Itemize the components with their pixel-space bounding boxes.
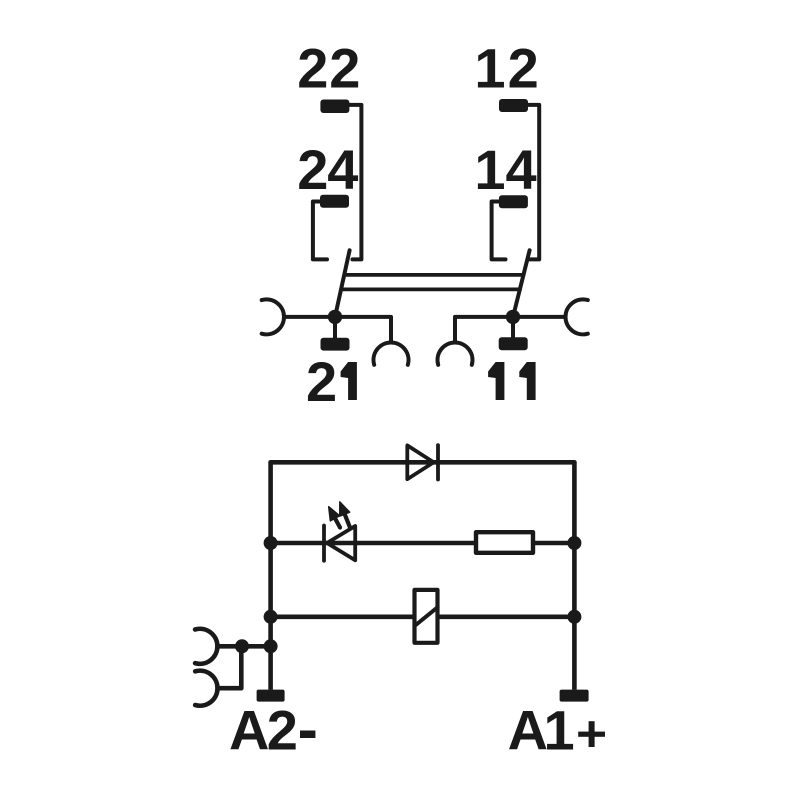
node dot coil row right <box>567 610 581 624</box>
wire lower socket elbow <box>218 646 242 688</box>
svg-text:22: 22 <box>297 36 360 99</box>
terminal label 11 <box>488 362 535 400</box>
LED triangle <box>327 526 355 560</box>
terminal pad A2 <box>257 690 285 702</box>
wire node 11 to right socket <box>513 315 566 319</box>
wire from 22 pad to NC contact <box>349 105 361 260</box>
LED arrow 1 <box>329 507 340 528</box>
terminal pad 12 <box>499 99 528 112</box>
stub to 21 pad <box>333 317 337 338</box>
switch arm pole 2 <box>335 250 350 317</box>
LED arrow 2 <box>340 502 350 528</box>
svg-text:A2: A2 <box>229 698 298 761</box>
stub to 11 pad <box>511 317 515 337</box>
diode V1 triangle <box>407 445 433 479</box>
wire node 11 to NO socket <box>455 317 513 343</box>
connector socket arc lower <box>195 671 217 706</box>
coil circuit frame right vertical <box>572 462 577 690</box>
svg-text:14: 14 <box>474 138 536 201</box>
actuator linkage upper bar <box>344 273 523 277</box>
connector row wire <box>217 644 270 649</box>
node dot middle row left <box>264 536 278 550</box>
switch arm pole 1 <box>513 250 530 317</box>
resistor R1 <box>476 532 533 553</box>
actuator linkage lower bar <box>341 287 520 291</box>
wire hook from 24 pad to NO contact <box>313 202 327 260</box>
terminal pad 21 <box>321 338 350 351</box>
NO socket arc under 24 <box>373 342 408 364</box>
node dot connector main <box>264 639 278 653</box>
node dot coil row left <box>264 610 278 624</box>
wire from 12 pad to NC contact <box>528 105 540 260</box>
node dot 11 <box>506 310 520 324</box>
LED cathode bar <box>322 526 326 561</box>
NO socket arc under 14 <box>437 342 472 364</box>
svg-text:24: 24 <box>297 138 358 201</box>
terminal pad A1 <box>560 690 589 702</box>
svg-text:A1: A1 <box>508 698 575 761</box>
relay coil K1 diagonal <box>415 607 438 626</box>
connector socket arc upper <box>195 629 217 664</box>
middle row wire left <box>271 541 476 546</box>
node dot connector junction <box>235 639 249 653</box>
svg-text:2: 2 <box>306 350 337 413</box>
terminal pad 11 <box>499 337 528 350</box>
socket arc left of 21 <box>262 299 284 334</box>
coil row wire left <box>271 614 415 619</box>
coil circuit frame left vertical <box>268 462 273 690</box>
relay coil K1 box <box>415 590 438 643</box>
terminal pad 14 <box>499 195 528 208</box>
wire hook from 14 pad to NO contact <box>492 202 506 260</box>
terminal pad 24 <box>320 195 349 208</box>
socket arc right of 11 <box>565 299 587 334</box>
node dot 21 <box>328 310 342 324</box>
wire left socket to node 21 <box>284 317 391 343</box>
middle row wire right <box>533 541 574 546</box>
node dot middle row right <box>567 536 581 550</box>
top row wire with freewheeling diode <box>271 460 575 465</box>
svg-text:12: 12 <box>474 36 538 99</box>
terminal pad 22 <box>320 100 349 114</box>
diode V1 cathode bar <box>436 445 440 479</box>
coil row wire right <box>438 614 575 619</box>
